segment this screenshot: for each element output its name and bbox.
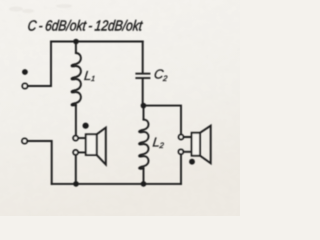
- wire: right speaker to bottom bus: [180, 154, 182, 184]
- input terminal plus dot: [22, 69, 28, 75]
- right speaker box: [192, 133, 200, 156]
- inductor L2: [139, 120, 148, 169]
- wire: bottom input to bottom bus: [28, 141, 52, 184]
- left speaker polarity dot: [83, 123, 89, 129]
- node junction C2 / L2 / right speaker: [141, 103, 147, 109]
- wire: L2 to bottom bus: [143, 168, 145, 184]
- wire: junction to right speaker: [143, 106, 181, 135]
- wire: left speaker to bottom bus: [75, 155, 77, 184]
- wire: top input to top bus: [28, 42, 51, 87]
- paper background: [0, 0, 240, 216]
- left speaker top terminal: [73, 136, 78, 141]
- node junction left speaker / bottom bus: [73, 181, 79, 187]
- capacitor C2 plates: [135, 73, 150, 79]
- left speaker bottom terminal: [73, 150, 78, 155]
- node junction L2 / bottom bus: [141, 181, 147, 187]
- wire: top bus corner down to C2: [142, 42, 144, 73]
- wire: junction to L2: [143, 106, 145, 120]
- svg-text:C - 6dB/okt - 12dB/okt: C - 6dB/okt - 12dB/okt: [27, 19, 144, 35]
- input terminal top (open circle): [22, 83, 27, 88]
- inductor L1: [72, 53, 81, 105]
- wire: C2 to junction: [142, 79, 144, 106]
- right speaker polarity dot: [189, 159, 195, 165]
- wire: L1 to left speaker: [75, 105, 77, 135]
- left speaker box: [86, 134, 97, 155]
- wire: speaker stubs: [78, 138, 86, 152]
- input terminal bottom (open circle): [22, 138, 27, 143]
- wire: right speaker stubs: [184, 137, 192, 152]
- wire: top bus: [51, 41, 143, 43]
- right speaker horn: [200, 126, 211, 164]
- left speaker horn: [97, 128, 106, 165]
- right speaker top terminal: [179, 135, 184, 140]
- right speaker bottom terminal: [179, 149, 184, 154]
- node junction on top bus: [73, 39, 79, 45]
- wire: bottom bus: [52, 183, 181, 185]
- faint scan smudges top-left: [9, 4, 72, 13]
- wire: junction to L1: [75, 42, 77, 54]
